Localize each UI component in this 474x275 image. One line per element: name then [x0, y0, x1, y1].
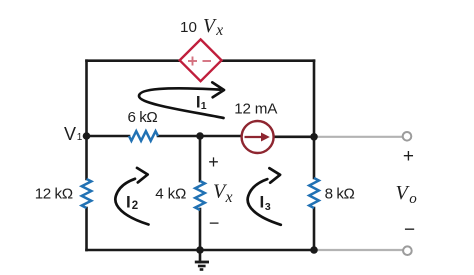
svg-text:+: +: [403, 146, 414, 167]
svg-text:6 kΩ: 6 kΩ: [128, 109, 158, 126]
svg-text:I: I: [260, 193, 265, 212]
svg-text:−: −: [209, 213, 220, 233]
svg-text:V: V: [396, 182, 411, 204]
svg-text:V: V: [64, 124, 76, 144]
svg-text:+: +: [208, 152, 219, 172]
svg-text:10: 10: [180, 19, 197, 36]
svg-text:I: I: [126, 192, 131, 211]
svg-text:V: V: [203, 16, 217, 37]
svg-text:12 mA: 12 mA: [234, 101, 278, 118]
svg-text:8 kΩ: 8 kΩ: [325, 186, 355, 203]
svg-text:4 kΩ: 4 kΩ: [155, 186, 186, 203]
svg-text:o: o: [409, 191, 417, 207]
svg-text:x: x: [225, 189, 233, 206]
svg-text:2: 2: [132, 200, 138, 212]
svg-text:x: x: [215, 22, 223, 39]
svg-text:1: 1: [201, 100, 207, 112]
svg-text:3: 3: [265, 201, 271, 213]
svg-text:12 kΩ: 12 kΩ: [35, 186, 73, 203]
svg-text:1: 1: [77, 132, 83, 143]
svg-text:−: −: [404, 220, 415, 241]
